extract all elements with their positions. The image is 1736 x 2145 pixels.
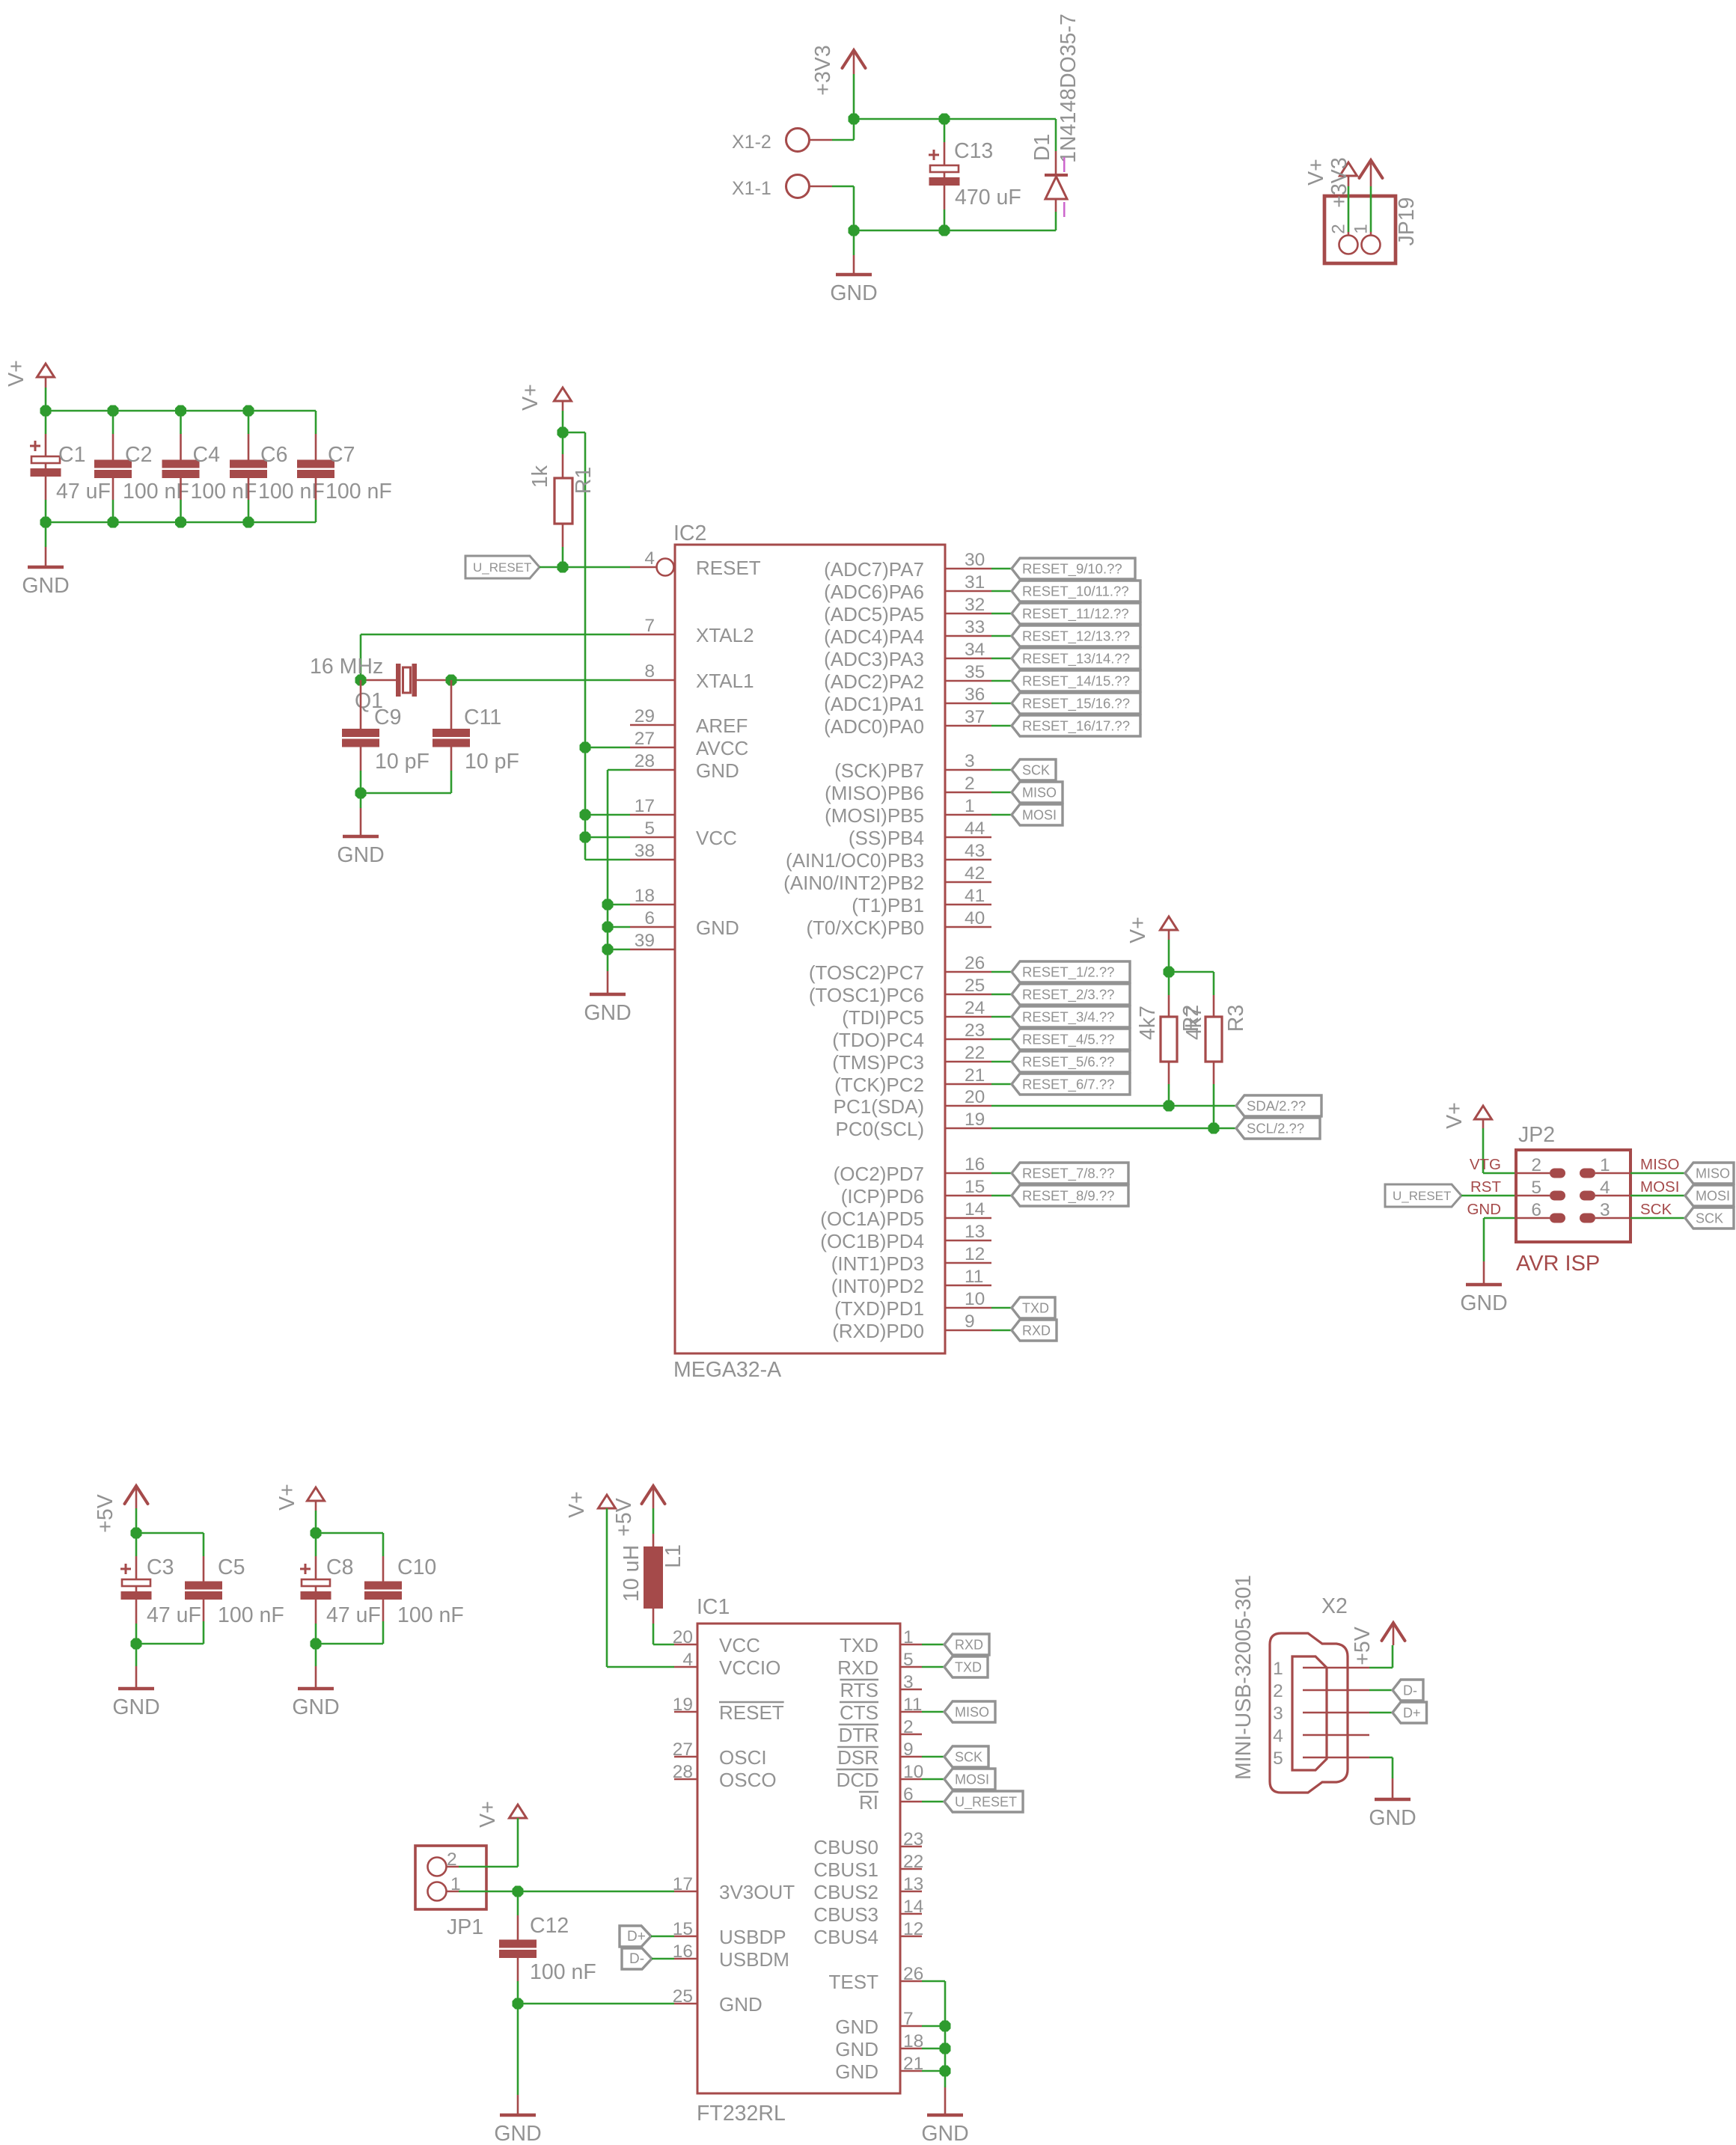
svg-text:AVR ISP: AVR ISP: [1516, 1252, 1600, 1276]
svg-text:18: 18: [635, 886, 655, 906]
svg-text:X2: X2: [1321, 1594, 1348, 1618]
svg-text:MISO: MISO: [955, 1705, 989, 1720]
svg-text:(TMS)PC3: (TMS)PC3: [832, 1051, 924, 1074]
svg-text:MOSI: MOSI: [955, 1772, 989, 1787]
svg-text:2: 2: [965, 774, 975, 794]
power V+ (JP19 pin2): [1304, 159, 1357, 186]
connector pad X1-1: [732, 175, 810, 200]
wire JP19 pin1 to +3V3: [1351, 160, 1372, 236]
svg-text:DCD: DCD: [837, 1769, 878, 1791]
IC1 pin 16 USBDM: [673, 1941, 789, 1971]
wire PA2 to flag: [991, 680, 1012, 682]
svg-text:XTAL1: XTAL1: [696, 670, 754, 692]
resistor R2: [1136, 972, 1203, 1106]
IC1 pin 14 CBUS3: [813, 1897, 923, 1926]
junction C3 top: [131, 1528, 142, 1539]
net flag RESET_3/4.??: [1012, 1006, 1130, 1027]
svg-text:JP1: JP1: [447, 1915, 483, 1939]
svg-text:TXD: TXD: [840, 1634, 878, 1656]
connector JP2 AVR ISP: [1467, 1123, 1679, 1276]
IC2 pin 1 (MOSI)PB5: [825, 796, 991, 827]
svg-text:14: 14: [903, 1897, 923, 1917]
svg-text:(T1)PB1: (T1)PB1: [852, 894, 924, 917]
IC2 pin 33 (ADC4)PA4: [824, 617, 991, 648]
junction cap bank bottom: [175, 517, 186, 528]
wire D- to USBDM: [652, 1958, 674, 1960]
IC1 pin 2 DTR: [839, 1717, 922, 1746]
svg-text:(SCK)PB7: (SCK)PB7: [834, 759, 924, 782]
svg-text:C13: C13: [954, 139, 993, 163]
IC2 pin 29 AREF: [630, 706, 748, 737]
IC1 pin 15 USBDP: [673, 1919, 786, 1948]
net flag RESET_1/2.??: [1012, 961, 1130, 982]
wire SDA net: [991, 1105, 1236, 1107]
wire PB to flag SCK: [991, 769, 1012, 771]
connector pad X1-2: [732, 129, 810, 153]
svg-text:6: 6: [644, 908, 655, 928]
svg-text:(AIN1/OC0)PB3: (AIN1/OC0)PB3: [786, 849, 924, 872]
svg-text:MOSI: MOSI: [1640, 1178, 1679, 1196]
svg-text:10: 10: [903, 1762, 923, 1782]
IC1 pin 23 CBUS0: [813, 1829, 923, 1858]
wire PD to flag RESET_8/9.??: [991, 1195, 1012, 1197]
svg-text:27: 27: [673, 1739, 693, 1760]
svg-text:12: 12: [965, 1244, 985, 1264]
wire bus to gnd21: [922, 2070, 945, 2072]
svg-text:2: 2: [903, 1717, 914, 1737]
svg-text:5: 5: [903, 1650, 914, 1670]
svg-text:11: 11: [965, 1267, 983, 1287]
svg-text:GND: GND: [835, 2060, 878, 2083]
svg-text:C6: C6: [260, 443, 287, 467]
svg-text:AREF: AREF: [696, 715, 748, 737]
IC1 pin 21 GND: [835, 2054, 923, 2083]
net flag D- (X2): [1393, 1680, 1423, 1701]
resistor R1: [528, 432, 596, 567]
svg-text:38: 38: [635, 841, 655, 861]
svg-text:SCK: SCK: [1640, 1201, 1672, 1218]
IC2 pin 20 PC1(SDA): [834, 1087, 991, 1118]
svg-text:(TCK)PC2: (TCK)PC2: [834, 1074, 924, 1096]
svg-text:4k7: 4k7: [1182, 1006, 1206, 1040]
net flag RESET_16/17.??: [1012, 715, 1140, 736]
svg-text:23: 23: [903, 1829, 923, 1849]
ground GND (X1): [830, 230, 877, 305]
svg-text:RESET: RESET: [696, 557, 761, 579]
capacitor C3: [120, 1533, 201, 1644]
svg-text:RESET_15/16.??: RESET_15/16.??: [1022, 696, 1130, 712]
svg-text:100 nF: 100 nF: [325, 480, 392, 504]
IC2 pin 15 (ICP)PD6: [841, 1177, 991, 1208]
svg-text:JP2: JP2: [1518, 1123, 1555, 1147]
wire XTAL1 net: [451, 679, 630, 682]
svg-text:RESET: RESET: [719, 1701, 784, 1724]
power +5V (C3): [94, 1486, 148, 1533]
svg-text:C8: C8: [326, 1555, 353, 1579]
svg-text:C1: C1: [58, 443, 85, 467]
wire PA7 to flag: [991, 568, 1012, 570]
net flag SCL/2.??: [1236, 1118, 1320, 1139]
svg-text:40: 40: [965, 908, 985, 928]
net flag SCK (IC1): [944, 1746, 988, 1767]
svg-text:(MISO)PB6: (MISO)PB6: [825, 782, 924, 804]
svg-text:37: 37: [965, 707, 985, 727]
svg-text:8: 8: [644, 661, 655, 682]
svg-text:42: 42: [965, 863, 985, 884]
svg-text:100 nF: 100 nF: [191, 480, 257, 504]
net flag TXD (IC1): [944, 1656, 988, 1677]
IC1 pin 22 CBUS1: [813, 1852, 923, 1881]
IC2 pin 41 (T1)PB1: [852, 886, 991, 917]
svg-text:V+: V+: [476, 1801, 500, 1828]
IC2 pin 38: [630, 841, 675, 861]
junction cap bank top: [108, 406, 119, 417]
svg-text:TXD: TXD: [955, 1660, 982, 1675]
net flag SCK: [1012, 759, 1056, 780]
svg-text:GND: GND: [835, 2016, 878, 2038]
wire cap bank top rail: [46, 410, 316, 412]
ground GND (C8): [292, 1644, 339, 1719]
IC2 pin 30 (ADC7)PA7: [824, 550, 991, 581]
inductor L1: [620, 1508, 685, 1644]
wire C5 to C3 bottom: [136, 1643, 204, 1645]
wire C11 to C9 gnd: [361, 792, 451, 795]
svg-text:26: 26: [903, 1964, 923, 1984]
svg-text:MINI-USB-32005-301: MINI-USB-32005-301: [1232, 1575, 1256, 1780]
svg-text:FT232RL: FT232RL: [697, 2102, 786, 2126]
svg-text:X1-1: X1-1: [732, 178, 771, 199]
svg-text:C9: C9: [374, 706, 401, 729]
svg-text:9: 9: [903, 1739, 914, 1760]
power V+ (R1): [519, 384, 572, 411]
svg-text:CBUS4: CBUS4: [813, 1926, 878, 1948]
svg-text:CBUS2: CBUS2: [813, 1881, 878, 1903]
svg-text:GND: GND: [1369, 1806, 1416, 1830]
svg-text:12: 12: [903, 1919, 923, 1939]
svg-text:+5V: +5V: [1351, 1627, 1375, 1665]
junction V+ R2: [1164, 967, 1175, 978]
svg-text:VCC: VCC: [719, 1634, 760, 1656]
IC2 pin 12 (INT1)PD3: [831, 1244, 991, 1275]
IC1 pin 19 RESET: [673, 1695, 784, 1724]
wire AVCC bus vertical: [584, 432, 587, 860]
svg-text:7: 7: [903, 2009, 914, 2029]
svg-text:+5V: +5V: [612, 1498, 636, 1537]
wire XTAL2 net: [361, 634, 630, 680]
wire PC7 to flag: [991, 971, 1012, 973]
junction IC1 gnd 7: [940, 2021, 951, 2032]
svg-text:C7: C7: [328, 443, 355, 467]
wire C8 C10 top rail: [316, 1533, 383, 1556]
svg-text:25: 25: [673, 1986, 693, 2007]
svg-text:(ADC2)PA2: (ADC2)PA2: [824, 670, 924, 693]
svg-text:47 uF: 47 uF: [147, 1603, 201, 1627]
wire V+ to JP2 VTG: [1483, 1119, 1516, 1173]
svg-text:4: 4: [644, 548, 655, 569]
wire bus to gnd7: [922, 2025, 945, 2028]
net flag D+ (IC1): [620, 1926, 651, 1947]
capacitor C11: [433, 680, 519, 793]
IC1 pin 28 OSCO: [673, 1762, 777, 1791]
svg-text:1: 1: [965, 796, 975, 816]
svg-text:16 MHz: 16 MHz: [310, 655, 383, 679]
svg-text:(MOSI)PB5: (MOSI)PB5: [825, 804, 924, 827]
svg-text:34: 34: [965, 640, 985, 660]
svg-text:(INT0)PD2: (INT0)PD2: [831, 1275, 924, 1297]
svg-text:GND: GND: [112, 1695, 159, 1719]
svg-text:29: 29: [635, 706, 655, 726]
junction AVCC: [580, 742, 591, 753]
wire PA4 to flag: [991, 635, 1012, 637]
IC2 pin 19 PC0(SCL): [836, 1110, 991, 1140]
svg-text:RESET_16/17.??: RESET_16/17.??: [1022, 718, 1130, 735]
capacitor C1: [30, 411, 111, 522]
IC2 pin 6 GND: [630, 908, 739, 939]
svg-text:3: 3: [1600, 1200, 1610, 1220]
wire bus to pin6: [608, 926, 630, 928]
capacitor C10: [364, 1555, 464, 1644]
svg-text:SCK: SCK: [1022, 763, 1050, 778]
junction C12 bottom: [513, 1998, 524, 2010]
power +3V3 (JP19 pin1): [1327, 157, 1383, 207]
svg-text:18: 18: [903, 2031, 923, 2051]
wire IC2 gnd bus: [608, 770, 630, 971]
net flag U_RESET (R1): [465, 556, 540, 578]
IC2 pin 21 (TCK)PC2: [834, 1065, 991, 1096]
net flag RESET_2/3.??: [1012, 984, 1130, 1005]
IC1 pin 1 TXD: [840, 1627, 922, 1656]
svg-text:2: 2: [1273, 1681, 1283, 1701]
svg-text:R1: R1: [572, 467, 596, 494]
junction cap bank top: [243, 406, 254, 417]
IC2 pin 36 (ADC1)PA1: [824, 685, 991, 715]
net flag U_RESET (JP2): [1385, 1184, 1461, 1207]
svg-text:+3V3: +3V3: [811, 45, 835, 95]
svg-text:4k7: 4k7: [1136, 1006, 1160, 1040]
junction top rail at +3V3: [849, 114, 860, 125]
capacitor C6: [230, 411, 325, 522]
net flag MISO: [1012, 782, 1063, 803]
svg-text:MISO: MISO: [1022, 786, 1057, 801]
wire X2 pin3 to D+: [1369, 1712, 1393, 1714]
junction cap bank bottom: [108, 517, 119, 528]
svg-text:6: 6: [903, 1784, 914, 1805]
svg-text:CBUS1: CBUS1: [813, 1858, 878, 1881]
IC2 pin 24 (TDI)PC5: [842, 998, 991, 1029]
svg-text:GND: GND: [719, 1993, 762, 2016]
junction R1 top: [557, 427, 569, 438]
junction C3 bottom: [131, 1638, 142, 1650]
wire PC2 to flag: [991, 1083, 1012, 1086]
svg-text:2: 2: [1531, 1155, 1541, 1175]
svg-text:C12: C12: [530, 1914, 569, 1938]
svg-text:DSR: DSR: [837, 1746, 878, 1769]
wire IC1 to flag RXD: [922, 1644, 944, 1646]
svg-text:VTG: VTG: [1470, 1156, 1501, 1173]
svg-text:IC2: IC2: [673, 521, 706, 545]
svg-text:25: 25: [965, 976, 985, 996]
svg-text:(ADC4)PA4: (ADC4)PA4: [824, 625, 924, 648]
svg-text:GND: GND: [584, 1001, 631, 1025]
svg-text:GND: GND: [921, 2122, 968, 2145]
svg-text:GND: GND: [830, 281, 877, 305]
svg-text:RESET_13/14.??: RESET_13/14.??: [1022, 651, 1130, 667]
svg-text:GND: GND: [337, 843, 384, 867]
svg-text:RXD: RXD: [837, 1656, 878, 1679]
svg-text:MISO: MISO: [1640, 1156, 1679, 1173]
svg-text:6: 6: [1531, 1200, 1541, 1220]
svg-text:GND: GND: [1460, 1291, 1507, 1315]
net flag RESET_9/10.??: [1012, 558, 1135, 579]
capacitor C2: [94, 411, 189, 522]
svg-text:15: 15: [965, 1177, 985, 1197]
svg-text:V+: V+: [1126, 917, 1150, 943]
svg-text:16: 16: [673, 1941, 693, 1962]
wire PC6 to flag: [991, 994, 1012, 996]
svg-text:9: 9: [965, 1312, 975, 1332]
svg-text:100 nF: 100 nF: [258, 480, 325, 504]
capacitor C7: [297, 411, 392, 522]
svg-text:5: 5: [1273, 1748, 1283, 1769]
IC2 pin 25 (TOSC1)PC6: [809, 976, 991, 1006]
svg-text:24: 24: [965, 998, 985, 1018]
svg-text:(ADC7)PA7: (ADC7)PA7: [824, 558, 924, 581]
net flag RESET_13/14.??: [1012, 648, 1140, 669]
IC1 pin 4 VCCIO: [674, 1650, 780, 1679]
wire R1 junction to AVCC bus: [563, 432, 585, 434]
IC2 pin 2 (MISO)PB6: [825, 774, 991, 804]
IC1 pin 5 RXD: [837, 1650, 922, 1679]
svg-text:V+: V+: [275, 1484, 299, 1511]
junction cap bank bottom: [40, 517, 52, 528]
svg-text:4: 4: [1600, 1178, 1610, 1198]
svg-text:X1-2: X1-2: [732, 132, 771, 153]
wire V+ to top rail: [45, 377, 47, 411]
svg-text:3: 3: [1273, 1704, 1283, 1724]
svg-text:1: 1: [1273, 1659, 1283, 1679]
svg-text:17: 17: [635, 796, 655, 816]
IC2 pin 32 (ADC5)PA5: [824, 595, 991, 625]
svg-text:GND: GND: [696, 917, 739, 939]
svg-text:GND: GND: [494, 2122, 541, 2145]
svg-text:SCK: SCK: [1696, 1211, 1723, 1226]
svg-text:RST: RST: [1470, 1178, 1501, 1196]
IC1 pin 17 3V3OUT: [673, 1874, 795, 1903]
svg-text:RESET_5/6.??: RESET_5/6.??: [1022, 1054, 1114, 1071]
svg-text:CBUS0: CBUS0: [813, 1836, 878, 1858]
wire PA0 to flag: [991, 725, 1012, 727]
IC2 pin 11 (INT0)PD2: [831, 1267, 991, 1297]
net flag RESET_15/16.??: [1012, 693, 1140, 714]
svg-text:RESET_10/11.??: RESET_10/11.??: [1022, 584, 1129, 600]
crystal Q1 16MHz: [310, 655, 451, 713]
svg-text:CTS: CTS: [840, 1701, 878, 1724]
wire C12 gnd down: [517, 2004, 519, 2095]
IC1 pin 26 TEST: [829, 1964, 924, 1993]
svg-text:13: 13: [903, 1874, 923, 1894]
svg-text:(SS)PB4: (SS)PB4: [849, 827, 924, 849]
svg-text:IC1: IC1: [697, 1595, 730, 1619]
ground GND (JP2): [1460, 1261, 1507, 1315]
junction C8 top: [311, 1528, 322, 1539]
svg-text:RESET_11/12.??: RESET_11/12.??: [1022, 606, 1129, 622]
IC1 pin 18 GND: [835, 2031, 923, 2060]
svg-text:47 uF: 47 uF: [326, 1603, 381, 1627]
svg-text:USBDM: USBDM: [719, 1948, 789, 1971]
svg-text:VCCIO: VCCIO: [719, 1656, 780, 1679]
wire U_RESET to JP2 RST: [1461, 1195, 1516, 1197]
svg-text:C11: C11: [464, 706, 501, 729]
svg-text:47 uF: 47 uF: [56, 480, 111, 504]
svg-text:GND: GND: [292, 1695, 339, 1719]
net flag MOSI (JP2): [1685, 1185, 1734, 1206]
svg-text:1: 1: [1600, 1155, 1610, 1175]
svg-text:33: 33: [965, 617, 985, 637]
net flag RESET_12/13.??: [1012, 625, 1140, 646]
net flag MOSI: [1012, 804, 1063, 825]
IC2 pin 42 (AIN0/INT2)PB2: [783, 863, 991, 894]
svg-text:10 uH: 10 uH: [620, 1545, 644, 1602]
svg-text:D+: D+: [627, 1929, 646, 1944]
wire PC3 to flag: [991, 1061, 1012, 1063]
net flag MISO (IC1): [944, 1701, 995, 1722]
svg-text:XTAL2: XTAL2: [696, 624, 754, 646]
IC1 pin 10 DCD: [837, 1762, 924, 1791]
svg-text:(TDO)PC4: (TDO)PC4: [832, 1029, 924, 1051]
junction crystal right: [446, 675, 457, 686]
svg-text:(OC1B)PD4: (OC1B)PD4: [820, 1230, 924, 1252]
power V+ (C8): [275, 1484, 325, 1511]
IC2 pin 8 XTAL1: [630, 661, 754, 692]
IC2 pin 44 (SS)PB4: [849, 818, 991, 849]
svg-text:MOSI: MOSI: [1696, 1189, 1730, 1204]
IC2 pin 39: [630, 931, 675, 951]
jumper JP1: [415, 1846, 486, 1939]
svg-text:D-: D-: [629, 1951, 644, 1967]
IC2 pin 10 (TXD)PD1: [834, 1289, 991, 1320]
svg-text:2: 2: [1329, 224, 1349, 234]
svg-text:AVCC: AVCC: [696, 737, 748, 759]
diode D1: [1030, 13, 1081, 230]
svg-text:RTS: RTS: [840, 1679, 878, 1701]
svg-text:20: 20: [673, 1627, 693, 1647]
svg-text:28: 28: [635, 751, 655, 771]
svg-text:(ADC0)PA0: (ADC0)PA0: [824, 715, 924, 738]
svg-text:13: 13: [965, 1222, 985, 1242]
net flag U_RESET (IC1): [944, 1791, 1023, 1812]
svg-text:OSCI: OSCI: [719, 1746, 767, 1769]
capacitor C8: [300, 1533, 381, 1644]
svg-text:100 nF: 100 nF: [530, 1960, 596, 1984]
svg-text:14: 14: [965, 1199, 985, 1220]
svg-text:(TDI)PC5: (TDI)PC5: [842, 1006, 924, 1029]
wire branch to R3: [1169, 971, 1214, 973]
power +5V (X2): [1351, 1623, 1405, 1665]
svg-text:D+: D+: [1403, 1706, 1421, 1721]
IC2 pin 35 (ADC2)PA2: [824, 662, 991, 693]
wire V+ to R1: [562, 401, 564, 432]
wire PC4 to flag: [991, 1038, 1012, 1041]
wire bottom rail: [854, 230, 1056, 232]
svg-text:(OC1A)PD5: (OC1A)PD5: [820, 1208, 924, 1230]
power V+ (IC1 VCCIO): [565, 1491, 616, 1518]
wire PB to flag MISO: [991, 792, 1012, 794]
junction bottom rail at C13: [939, 225, 950, 236]
svg-text:23: 23: [965, 1021, 985, 1041]
svg-text:C4: C4: [193, 443, 221, 467]
wire TEST to gnd bus: [922, 1981, 945, 2087]
IC2 pin 43 (AIN1/OC0)PB3: [786, 841, 991, 872]
